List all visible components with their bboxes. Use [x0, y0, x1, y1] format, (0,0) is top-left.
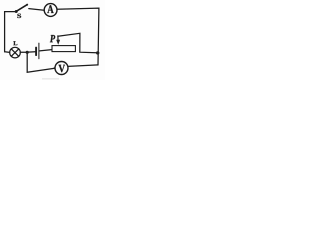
wire voltmeter left to junction riser — [27, 54, 55, 73]
rheostat R1 body — [52, 46, 75, 52]
label V — [59, 65, 66, 72]
wire battery to rheostat — [40, 50, 52, 51]
label P — [50, 35, 55, 42]
voltmeter U2 circle — [55, 62, 68, 75]
battery negative plate short thick — [35, 48, 37, 56]
wire bottom-right corner to voltmeter — [68, 65, 98, 67]
lamp L cross — [11, 49, 18, 56]
wire junction to battery — [29, 51, 36, 53]
rheostat slider arrowhead — [56, 40, 60, 45]
wire ammeter to top-right corner down right rail — [57, 8, 99, 65]
junction blob at voltmeter left terminal — [54, 67, 56, 69]
wire lamp to junction — [20, 51, 26, 53]
switch S lever — [17, 5, 28, 12]
bottom scan smudge — [42, 78, 59, 79]
ammeter U1 circle — [44, 4, 57, 17]
wire left rail and top-left corner to switch — [5, 12, 15, 52]
rheostat slider arrow shaft — [57, 36, 59, 40]
battery positive plate long thin — [38, 43, 40, 59]
lamp L circle — [10, 47, 21, 58]
switch S pivot dot — [15, 10, 18, 13]
label S — [17, 14, 21, 18]
label A — [47, 5, 53, 13]
wire switch to ammeter — [29, 9, 44, 11]
label L — [13, 41, 17, 45]
wire left corner to lamp — [5, 51, 10, 54]
switch S lever tip blob — [26, 4, 28, 6]
junction dot right rail — [96, 51, 99, 54]
junction dot left — [26, 51, 29, 54]
wire slider to right rail junction — [58, 33, 96, 53]
